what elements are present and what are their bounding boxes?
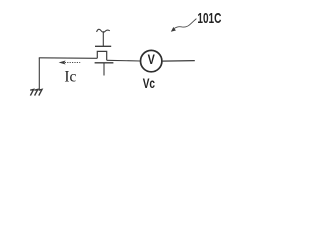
voltmeter U1 circle (141, 50, 162, 71)
svg-text:V: V (148, 51, 156, 67)
svg-text:Vc: Vc (143, 75, 155, 91)
break squiggle terminal (97, 29, 110, 32)
svg-text:Ic: Ic (64, 69, 76, 86)
wire right rail (162, 60, 195, 63)
transistor Q1 channel bump (97, 51, 106, 60)
wire ground riser (38, 58, 40, 90)
wire to voltmeter (107, 59, 141, 62)
transistor Q1 bottom gate lead (103, 63, 105, 76)
wire left rail (39, 57, 98, 60)
transistor Q1 top gate lead (102, 31, 104, 46)
current arrow Ic (59, 61, 81, 65)
leader arrow to 101C (171, 19, 197, 32)
svg-text:101C: 101C (197, 10, 221, 27)
transistor Q1 top gate bar (95, 45, 111, 47)
transistor Q1 bottom gate bar (95, 62, 114, 64)
ground (30, 89, 42, 95)
